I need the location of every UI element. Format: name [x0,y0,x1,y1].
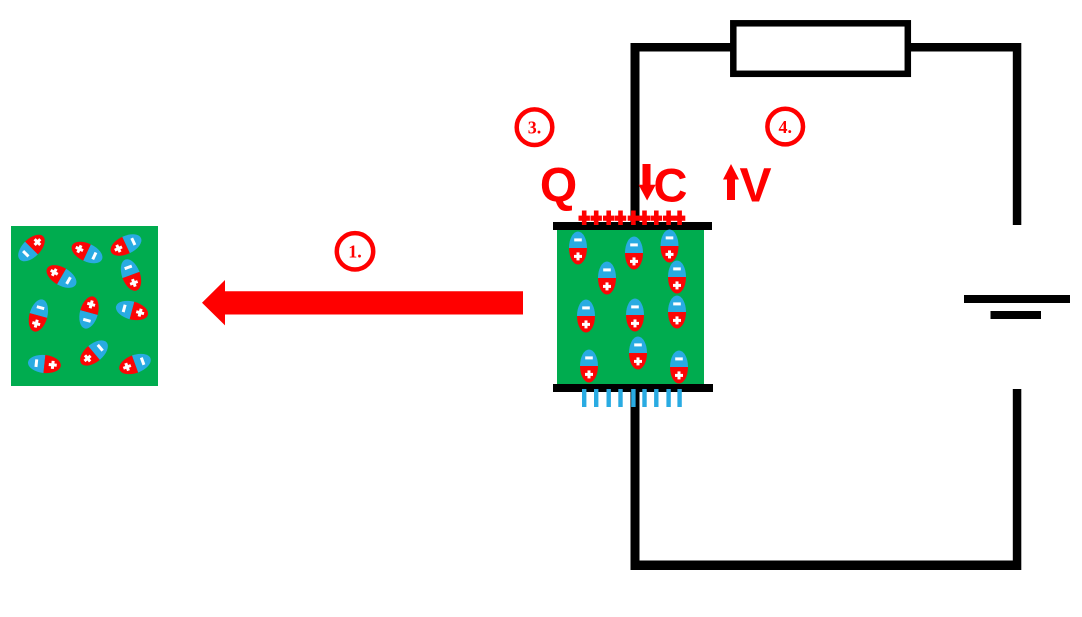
svg-text:3.: 3. [528,118,542,138]
svg-text:Q: Q [540,160,577,213]
svg-text:V: V [739,160,771,213]
svg-text:1.: 1. [348,242,362,262]
svg-text:4.: 4. [778,117,792,137]
svg-text:C: C [654,159,688,212]
